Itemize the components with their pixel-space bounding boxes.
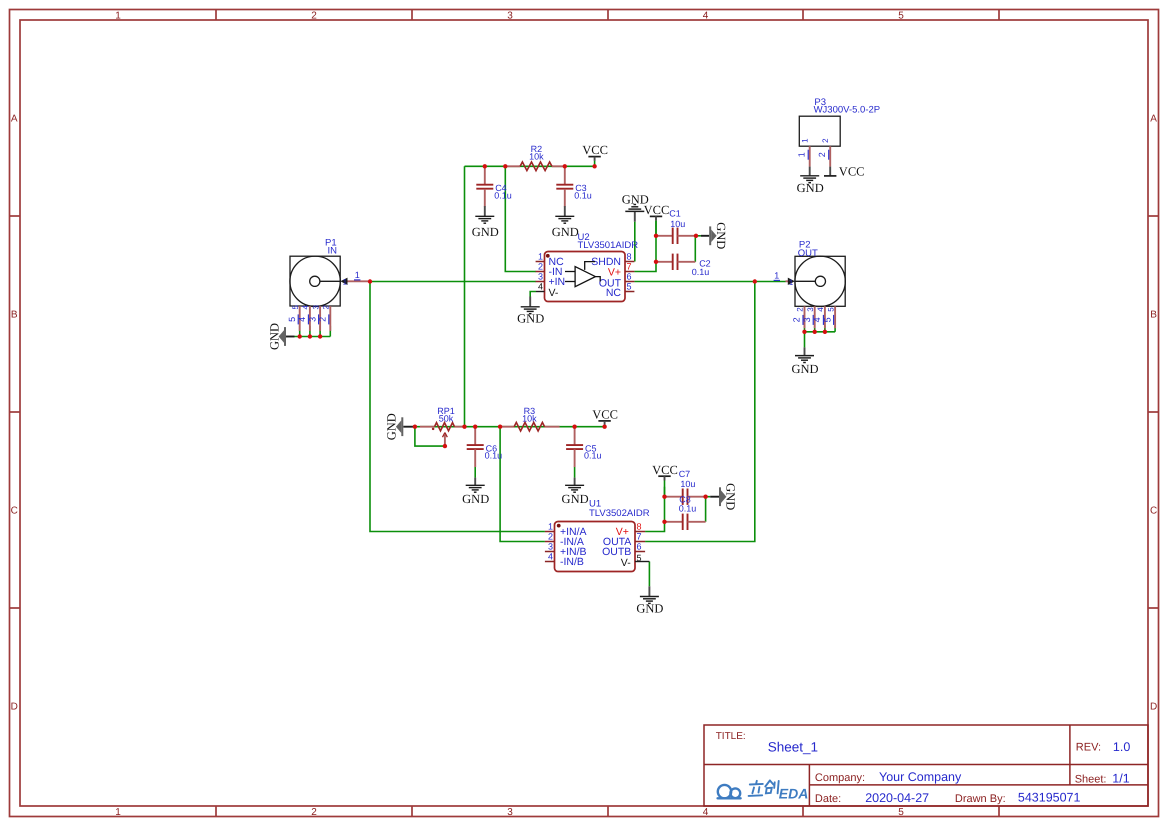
svg-text:TLV3502AIDR: TLV3502AIDR <box>589 508 650 519</box>
svg-text:1: 1 <box>774 270 779 280</box>
net label 1 at P1 <box>354 270 360 280</box>
svg-text:3: 3 <box>538 272 543 282</box>
capacitor C6 0.1u <box>467 427 502 467</box>
VCC symbol at R3 <box>592 408 618 427</box>
svg-text:B: B <box>1150 310 1157 321</box>
U1 pin 1 +IN/A <box>545 522 587 539</box>
svg-text:TITLE:: TITLE: <box>716 731 746 742</box>
svg-text:VCC: VCC <box>592 408 618 422</box>
GND under C3 <box>552 206 579 239</box>
GND inverted above U2 SHDN <box>622 192 649 221</box>
svg-text:C: C <box>1150 506 1157 517</box>
wire U2 V+ to VCC/C1/C2 <box>634 221 656 272</box>
svg-text:IN: IN <box>328 245 338 256</box>
GND under U1 V- <box>636 586 663 615</box>
svg-text:2: 2 <box>817 152 827 157</box>
node C1/C2 junctions <box>654 234 658 238</box>
svg-text:VCC: VCC <box>582 143 608 157</box>
U1 pin 3 +IN/B <box>545 542 587 559</box>
wire C7/C8 right join <box>706 497 711 522</box>
svg-text:-IN/B: -IN/B <box>560 556 584 568</box>
svg-text:D: D <box>11 702 18 713</box>
svg-text:WJ300V-5.0-2P: WJ300V-5.0-2P <box>814 104 881 115</box>
svg-text:C: C <box>11 506 18 517</box>
svg-text:GND: GND <box>472 225 499 239</box>
svg-text:2: 2 <box>311 10 317 21</box>
title block <box>704 725 1148 806</box>
capacitor C3 0.1u <box>556 166 591 206</box>
svg-text:1: 1 <box>355 270 360 280</box>
wire U1 V+ to VCC/C7/C8 <box>645 487 664 532</box>
svg-text:GND: GND <box>791 362 818 376</box>
wire C6 node down to U1 -IN/A <box>500 427 545 542</box>
svg-text:5: 5 <box>287 317 297 322</box>
svg-text:3: 3 <box>802 317 812 322</box>
svg-text:C1: C1 <box>669 209 681 219</box>
svg-text:2: 2 <box>318 317 328 322</box>
op-amp U1 TLV3502AIDR <box>555 499 650 572</box>
svg-text:Drawn By:: Drawn By: <box>955 793 1006 805</box>
svg-text:2: 2 <box>548 532 553 542</box>
svg-text:4: 4 <box>538 282 543 292</box>
svg-text:10u: 10u <box>680 479 695 489</box>
wire RP1/R3/C5/C6 row <box>415 426 605 428</box>
svg-text:C7: C7 <box>679 469 691 479</box>
svg-text:A: A <box>11 114 18 125</box>
GND under C4 <box>472 206 499 239</box>
svg-text:EDA: EDA <box>779 786 809 802</box>
svg-text:5: 5 <box>826 307 835 312</box>
svg-text:4: 4 <box>812 317 822 322</box>
svg-text:OUT: OUT <box>798 248 818 259</box>
svg-text:543195071: 543195071 <box>1018 791 1081 805</box>
svg-text:0.1u: 0.1u <box>494 190 512 200</box>
node C7/C8 junctions <box>662 495 666 499</box>
GND under P3 pin 1 <box>797 167 824 196</box>
P1 pin 1 <box>340 278 368 287</box>
svg-text:3: 3 <box>507 10 513 21</box>
wire U1 V- to GND <box>648 562 650 587</box>
svg-text:GND: GND <box>462 492 489 506</box>
svg-text:1: 1 <box>115 807 121 818</box>
svg-text:1/1: 1/1 <box>1112 771 1129 785</box>
EasyEDA logo <box>718 785 740 798</box>
svg-text:GND: GND <box>636 601 663 615</box>
U2 pin 5 NC <box>606 282 635 299</box>
P2 pins 2 3 4 5 <box>792 306 836 328</box>
wire C6 to GND <box>474 467 476 478</box>
title block text <box>716 731 1131 805</box>
svg-text:1.0: 1.0 <box>1113 740 1130 754</box>
svg-text:5: 5 <box>822 317 832 322</box>
GND triangle at P1 bus <box>267 323 294 350</box>
svg-text:10k: 10k <box>529 152 544 162</box>
wire U2 SHDN to GND <box>634 222 636 262</box>
svg-text:0.1u: 0.1u <box>485 451 503 461</box>
capacitor C2 0.1u <box>656 254 711 277</box>
VCC symbol top rail <box>582 143 608 166</box>
svg-text:2: 2 <box>538 262 543 272</box>
svg-text:0.1u: 0.1u <box>679 503 697 513</box>
svg-text:5: 5 <box>291 305 300 310</box>
svg-text:D: D <box>1150 702 1157 713</box>
capacitor C1 10u <box>656 209 696 244</box>
svg-text:2: 2 <box>322 305 331 310</box>
svg-text:7: 7 <box>637 532 642 542</box>
svg-text:1: 1 <box>801 138 810 143</box>
svg-text:GND: GND <box>517 312 544 326</box>
capacitor C4 0.1u <box>476 166 511 206</box>
svg-text:Sheet:: Sheet: <box>1075 773 1107 785</box>
U2 pin 2 -IN <box>536 262 563 278</box>
wire RP1 wiper loop <box>415 427 445 446</box>
GND triangle at C7/C8 <box>710 483 738 510</box>
svg-text:TLV3501AIDR: TLV3501AIDR <box>578 240 639 251</box>
svg-text:4: 4 <box>297 317 307 322</box>
node rail junctions <box>483 164 487 168</box>
GND under U2 V- <box>517 297 544 326</box>
svg-text:2020-04-27: 2020-04-27 <box>865 791 929 805</box>
svg-text:5: 5 <box>898 10 904 21</box>
svg-text:VCC: VCC <box>652 463 678 477</box>
svg-text:4: 4 <box>703 807 709 818</box>
U1 pin 7 OUTA <box>603 532 645 549</box>
svg-text:0.1u: 0.1u <box>574 190 592 200</box>
op-amp U2 TLV3501AIDR <box>545 232 639 302</box>
wire C1/C2 right join <box>696 235 701 237</box>
svg-text:3: 3 <box>507 807 513 818</box>
svg-text:0.1u: 0.1u <box>584 451 602 461</box>
node P2 ground junctions <box>802 330 806 334</box>
svg-text:5: 5 <box>898 807 904 818</box>
VCC under P3 pin 2 <box>824 164 865 178</box>
GND under P2 <box>791 347 818 375</box>
svg-text:10k: 10k <box>522 414 537 424</box>
EasyEDA logo text <box>749 781 779 796</box>
svg-text:1: 1 <box>797 152 807 157</box>
svg-text:1: 1 <box>343 278 348 287</box>
U1 pin 5 V- <box>621 553 650 569</box>
svg-text:GND: GND <box>267 323 281 350</box>
svg-text:Date:: Date: <box>815 793 841 805</box>
capacitor C5 0.1u <box>566 427 601 467</box>
svg-text:1: 1 <box>789 278 794 287</box>
wire OUT down to U1 OUTA <box>645 282 755 542</box>
wire rail down to RP1 row <box>464 166 466 426</box>
svg-text:GND: GND <box>724 483 738 510</box>
svg-text:GND: GND <box>714 222 728 249</box>
svg-text:1: 1 <box>115 10 121 21</box>
svg-text:1: 1 <box>538 252 543 262</box>
U1 pin 8 V+ <box>616 522 645 539</box>
resistor R2 10k <box>505 144 565 170</box>
connector P2 OUT <box>795 239 845 306</box>
svg-text:5: 5 <box>627 282 632 292</box>
P3 pin 1 <box>797 138 810 167</box>
U1 pin 6 OUTB <box>602 542 645 559</box>
U2 pin 4 V- <box>536 282 559 299</box>
svg-text:GND: GND <box>385 413 399 440</box>
node U2 OUT junction <box>753 279 757 283</box>
svg-text:B: B <box>11 310 18 321</box>
U1 pin 4 -IN/B <box>545 552 584 569</box>
svg-text:1: 1 <box>548 522 553 532</box>
wire C5 to GND <box>574 467 576 478</box>
wire U2 V- to GND <box>530 292 536 297</box>
svg-text:Company:: Company: <box>815 772 865 784</box>
node P1 output junction <box>368 279 372 283</box>
svg-text:V-: V- <box>549 287 559 299</box>
svg-text:2: 2 <box>821 138 830 143</box>
potentiometer RP1 50k <box>420 406 465 446</box>
VCC symbol at C1 <box>644 203 670 236</box>
svg-text:8: 8 <box>637 522 642 532</box>
svg-text:VCC: VCC <box>644 203 670 217</box>
svg-text:10u: 10u <box>670 219 685 229</box>
node RP1/R3 row junctions <box>413 425 417 429</box>
VCC symbol at C7 <box>652 463 678 497</box>
svg-text:GND: GND <box>562 492 589 506</box>
svg-text:2: 2 <box>796 307 805 312</box>
U2 pin 6 OUT <box>599 272 635 290</box>
node P1 ground junctions <box>298 334 302 338</box>
wire C4 node down to U2 -IN <box>505 166 536 271</box>
svg-text:4: 4 <box>816 307 825 312</box>
U2 pin 8 SHDN <box>591 252 634 268</box>
svg-text:2: 2 <box>792 317 802 322</box>
svg-text:GND: GND <box>552 225 579 239</box>
wire P2 bus to GND <box>804 332 806 348</box>
svg-text:7: 7 <box>627 262 632 272</box>
connector P1 IN <box>290 238 340 307</box>
svg-text:0.1u: 0.1u <box>692 267 710 277</box>
GND triangle at C1/C2 <box>701 222 728 249</box>
wire P1 ground bus <box>295 336 331 338</box>
wire U2 OUT to P2 <box>634 281 785 283</box>
svg-text:VCC: VCC <box>839 164 865 178</box>
svg-text:6: 6 <box>637 542 642 552</box>
U2 comparator triangle <box>565 262 600 287</box>
svg-text:Sheet_1: Sheet_1 <box>768 739 818 754</box>
capacitor C7 10u <box>665 469 706 505</box>
svg-text:3: 3 <box>307 317 317 322</box>
GND triangle at RP1 <box>385 413 415 440</box>
svg-text:GND: GND <box>797 181 824 195</box>
svg-text:50k: 50k <box>439 414 454 424</box>
svg-text:REV:: REV: <box>1076 742 1101 754</box>
svg-text:Your Company: Your Company <box>879 770 962 784</box>
U2 pin 7 V+ <box>608 262 635 279</box>
svg-text:3: 3 <box>311 305 320 310</box>
svg-text:5: 5 <box>637 553 642 563</box>
svg-text:6: 6 <box>627 272 632 282</box>
svg-text:4: 4 <box>301 305 310 310</box>
svg-text:A: A <box>1150 114 1157 125</box>
svg-text:4: 4 <box>548 552 553 562</box>
svg-text:2: 2 <box>311 807 317 818</box>
svg-text:4: 4 <box>703 10 709 21</box>
U1 pin 2 -IN/A <box>545 532 584 549</box>
P1 pins 5 4 3 2 <box>287 305 331 331</box>
svg-text:3: 3 <box>806 307 815 312</box>
capacitor C8 0.1u <box>665 495 706 531</box>
svg-text:NC: NC <box>606 287 622 299</box>
wire P1 down to U1 +IN/A <box>370 282 545 532</box>
U2 pin 3 +IN <box>536 272 566 288</box>
wire P2 ground bus <box>805 331 836 333</box>
wire VCC rail to R2/C4/C3 <box>465 165 595 167</box>
svg-text:V-: V- <box>621 557 631 569</box>
svg-text:3: 3 <box>548 542 553 552</box>
net label 1 at P2 <box>774 270 780 280</box>
wire P1 to U2 +IN <box>370 281 536 283</box>
connector P3 WJ300V-5.0-2P <box>799 97 880 146</box>
resistor R3 10k <box>500 406 559 431</box>
P2 pin 1 <box>786 278 795 287</box>
GND under C5 <box>562 478 589 506</box>
GND under C6 <box>462 478 489 506</box>
P3 pin 2 <box>817 138 830 167</box>
svg-text:8: 8 <box>627 252 632 262</box>
U2 pin 1 NC <box>536 252 564 268</box>
